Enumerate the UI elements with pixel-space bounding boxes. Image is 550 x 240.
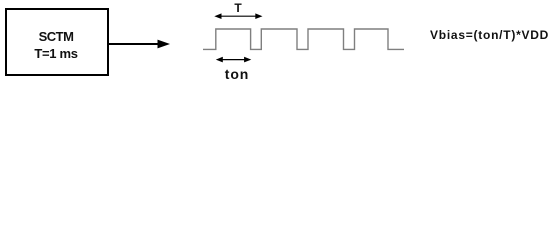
block SCTM box — [5, 8, 109, 76]
dimension arrow T (period) — [218, 15, 259, 17]
arrow head — [158, 40, 171, 49]
arrow shaft — [108, 43, 160, 45]
label ton — [223, 67, 251, 81]
label T — [228, 2, 248, 14]
dimension arrow ton (on-time) — [219, 59, 248, 61]
label SCTM — [4, 30, 108, 43]
formula Vbias=(ton/T)*VDD — [430, 29, 549, 41]
wire arrow from box to waveform — [0, 0, 550, 85]
waveform PWM signal — [203, 29, 404, 49]
label T=1 ms — [4, 47, 108, 60]
